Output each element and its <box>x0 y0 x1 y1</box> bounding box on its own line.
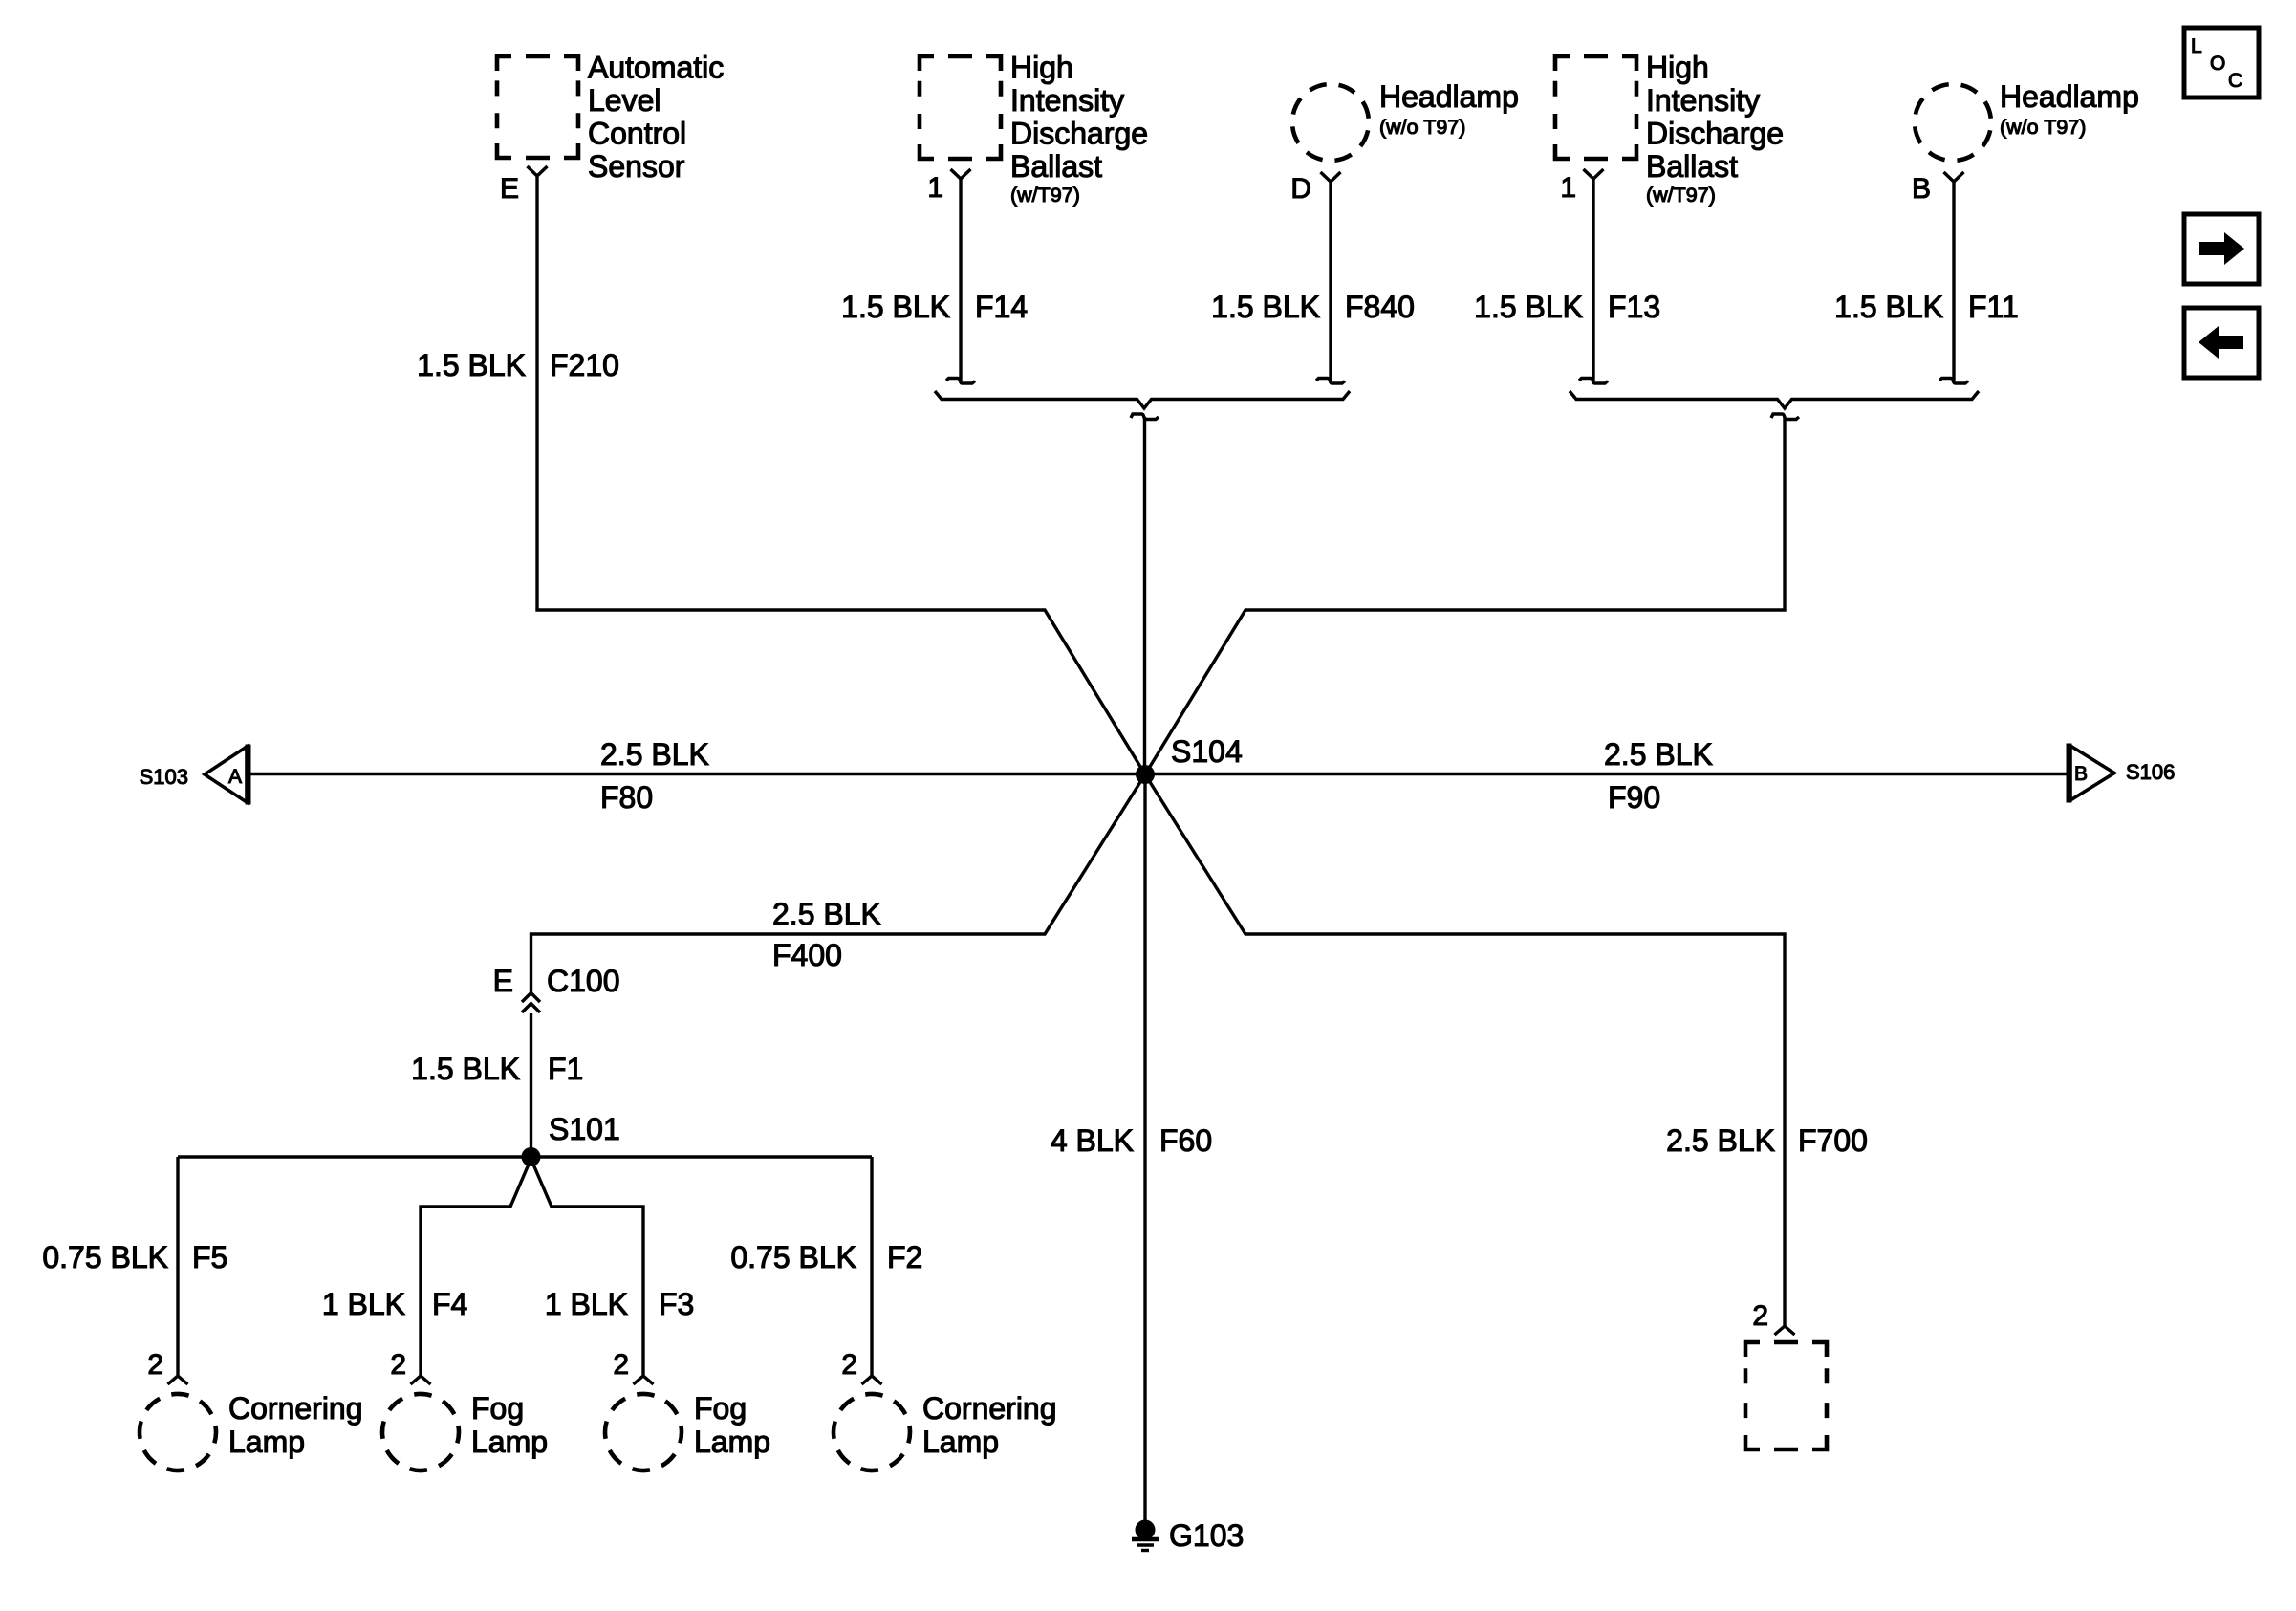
ground symbol G103 <box>1136 1520 1156 1540</box>
svg-text:F90: F90 <box>1608 780 1660 815</box>
splice node S101 <box>522 1147 541 1166</box>
splice node S104 <box>1136 765 1155 784</box>
svg-text:G103: G103 <box>1169 1518 1244 1553</box>
svg-text:Ballast: Ballast <box>1010 149 1102 184</box>
svg-text:Intensity: Intensity <box>1010 83 1124 118</box>
svg-text:1 BLK: 1 BLK <box>322 1287 405 1321</box>
svg-text:(w/o T97): (w/o T97) <box>1379 116 1465 139</box>
svg-text:Cornering: Cornering <box>922 1391 1057 1426</box>
svg-text:0.75 BLK: 0.75 BLK <box>42 1240 168 1274</box>
wire F2: 0.75 BLK to right cornering lamp <box>870 1157 873 1375</box>
off-page connector triangle A to S103 <box>205 747 247 802</box>
svg-text:2: 2 <box>841 1349 857 1381</box>
svg-text:Cornering: Cornering <box>228 1391 363 1426</box>
svg-text:2: 2 <box>613 1349 629 1381</box>
svg-text:O: O <box>2210 53 2225 75</box>
svg-text:1.5 BLK: 1.5 BLK <box>841 290 950 324</box>
svg-text:2: 2 <box>390 1349 406 1381</box>
hook below left brace <box>1131 414 1159 420</box>
svg-text:S103: S103 <box>140 765 188 789</box>
svg-text:2.5 BLK: 2.5 BLK <box>600 737 709 772</box>
svg-text:1.5 BLK: 1.5 BLK <box>1834 290 1943 324</box>
svg-text:F60: F60 <box>1159 1123 1212 1158</box>
component box: unnamed (F700 destination) <box>1745 1342 1827 1449</box>
right-arrow legend box <box>2184 214 2259 284</box>
main horizontal ground bus wire S103 to S106 <box>249 773 2068 775</box>
svg-text:Ballast: Ballast <box>1646 149 1738 184</box>
component box: Automatic Level Control Sensor <box>497 56 578 158</box>
svg-text:(w/T97): (w/T97) <box>1646 184 1716 207</box>
wire F5: 0.75 BLK to left cornering lamp <box>176 1157 179 1375</box>
svg-text:2: 2 <box>147 1349 163 1381</box>
svg-text:Lamp: Lamp <box>922 1425 999 1459</box>
wire F14: 1.5 BLK from left ballast pin 1 <box>959 179 962 381</box>
svg-text:High: High <box>1010 51 1073 85</box>
svg-text:F4: F4 <box>432 1287 467 1321</box>
component box: High Intensity Discharge Ballast (w/T97) left <box>920 56 1001 159</box>
wire end hook F840 <box>1316 379 1345 384</box>
svg-text:High: High <box>1646 51 1709 85</box>
svg-text:Headlamp: Headlamp <box>2000 79 2139 114</box>
svg-text:1: 1 <box>927 172 943 204</box>
pin 1 of left ballast <box>951 169 971 179</box>
inline connector C100 (double chevron) <box>522 993 540 1013</box>
S101 inner Y split to F4/F3 <box>421 1159 643 1375</box>
wire end hook F13 <box>1579 379 1608 384</box>
wire F700: 2.5 BLK from S104 diagonal down-right to unnamed connector <box>1145 774 1785 1325</box>
LOC legend box <box>2184 28 2259 98</box>
wire F1: 1.5 BLK from C100 to S101 <box>530 1013 532 1157</box>
hook below right brace <box>1771 414 1799 420</box>
svg-text:1.5 BLK: 1.5 BLK <box>417 348 526 382</box>
wire F13: 1.5 BLK from right ballast pin 1 <box>1592 179 1594 381</box>
svg-text:F700: F700 <box>1798 1123 1868 1158</box>
svg-text:1.5 BLK: 1.5 BLK <box>1211 290 1320 324</box>
svg-text:Discharge: Discharge <box>1646 117 1784 151</box>
svg-text:Fog: Fog <box>694 1391 747 1426</box>
svg-text:C: C <box>2228 70 2242 92</box>
pin B of right headlamp <box>1944 172 1964 182</box>
svg-text:F210: F210 <box>550 348 619 382</box>
svg-text:4 BLK: 4 BLK <box>1051 1123 1134 1158</box>
options brace F13/F11 <box>1570 391 1979 408</box>
svg-text:F3: F3 <box>659 1287 694 1321</box>
svg-text:L: L <box>2191 35 2202 57</box>
svg-text:F1: F1 <box>548 1052 583 1086</box>
pin 2 of left cornering lamp <box>168 1376 188 1384</box>
wire F210: 1.5 BLK from ALC sensor pin E down, right, diagonal to S104 <box>537 176 1145 774</box>
svg-text:1 BLK: 1 BLK <box>545 1287 628 1321</box>
left-arrow legend box <box>2184 308 2259 378</box>
svg-text:F11: F11 <box>1968 290 2019 324</box>
svg-text:(w/o T97): (w/o T97) <box>2000 116 2086 139</box>
options brace F14/F840 <box>935 391 1350 408</box>
pin E of ALC sensor <box>528 166 548 176</box>
svg-text:Automatic: Automatic <box>588 51 724 85</box>
svg-text:2.5 BLK: 2.5 BLK <box>1666 1123 1775 1158</box>
svg-text:E: E <box>500 173 519 205</box>
svg-text:Discharge: Discharge <box>1010 117 1148 151</box>
svg-text:B: B <box>1912 173 1931 205</box>
svg-text:F13: F13 <box>1608 290 1660 324</box>
svg-text:0.75 BLK: 0.75 BLK <box>730 1240 856 1274</box>
pin 1 of right ballast <box>1584 169 1604 179</box>
component circle: Headlamp (w/o T97) right <box>1908 77 1999 168</box>
svg-text:C100: C100 <box>547 964 620 998</box>
component circle: left cornering lamp <box>134 1388 223 1477</box>
pin 2 of right fog lamp <box>634 1376 654 1384</box>
svg-text:Intensity: Intensity <box>1646 83 1760 118</box>
pin D of left headlamp <box>1321 172 1341 182</box>
svg-text:2: 2 <box>1752 1300 1768 1332</box>
component circle: right fog lamp <box>599 1388 688 1477</box>
component box: High Intensity Discharge Ballast (w/T97) right <box>1555 56 1636 159</box>
svg-text:Headlamp: Headlamp <box>1379 79 1519 114</box>
svg-text:S106: S106 <box>2126 760 2175 784</box>
svg-text:S101: S101 <box>549 1112 620 1146</box>
pin 2 of unnamed component <box>1775 1326 1795 1335</box>
pin 2 of left fog lamp <box>411 1376 431 1384</box>
S101 horizontal bus <box>178 1155 872 1158</box>
svg-text:2.5 BLK: 2.5 BLK <box>1604 737 1713 772</box>
svg-text:Sensor: Sensor <box>588 149 685 184</box>
svg-text:Fog: Fog <box>471 1391 524 1426</box>
pin 2 of right cornering lamp <box>862 1376 882 1384</box>
svg-text:Lamp: Lamp <box>471 1425 548 1459</box>
svg-text:Lamp: Lamp <box>694 1425 770 1459</box>
svg-text:Lamp: Lamp <box>228 1425 305 1459</box>
svg-text:1.5 BLK: 1.5 BLK <box>1474 290 1583 324</box>
svg-text:E: E <box>493 964 513 998</box>
wire F840: 1.5 BLK from left headlamp pin D <box>1329 182 1332 381</box>
wire from right brace down, left, diagonal to S104 <box>1145 417 1785 774</box>
wire F400: 2.5 BLK from S104 diagonal down-left to C100 <box>531 774 1146 992</box>
svg-text:D: D <box>1290 173 1311 205</box>
wire from left brace down to S104 <box>1143 417 1146 774</box>
wire end hook F14 <box>946 379 975 384</box>
svg-text:F80: F80 <box>600 780 653 815</box>
svg-text:Level: Level <box>588 83 661 118</box>
svg-text:Control: Control <box>588 117 686 151</box>
svg-text:F5: F5 <box>192 1240 227 1274</box>
svg-text:S104: S104 <box>1171 734 1243 769</box>
wire end hook F11 <box>1939 379 1968 384</box>
svg-text:B: B <box>2074 763 2088 785</box>
svg-text:A: A <box>228 766 242 788</box>
svg-text:1: 1 <box>1560 172 1576 204</box>
svg-text:2.5 BLK: 2.5 BLK <box>772 897 881 931</box>
wire F11: 1.5 BLK from right headlamp pin B <box>1952 182 1955 381</box>
component circle: Headlamp (w/o T97) left <box>1286 77 1376 168</box>
svg-text:F400: F400 <box>772 938 842 972</box>
svg-text:F2: F2 <box>887 1240 922 1274</box>
component circle: left fog lamp <box>377 1388 466 1477</box>
off-page connector triangle B to S106 <box>2070 746 2114 800</box>
svg-text:(w/T97): (w/T97) <box>1010 184 1080 207</box>
component circle: right cornering lamp <box>828 1388 917 1477</box>
svg-text:F14: F14 <box>975 290 1028 324</box>
svg-text:F840: F840 <box>1345 290 1415 324</box>
svg-text:1.5 BLK: 1.5 BLK <box>411 1052 520 1086</box>
wire F60: 4 BLK from S104 down to G103 <box>1143 774 1146 1521</box>
